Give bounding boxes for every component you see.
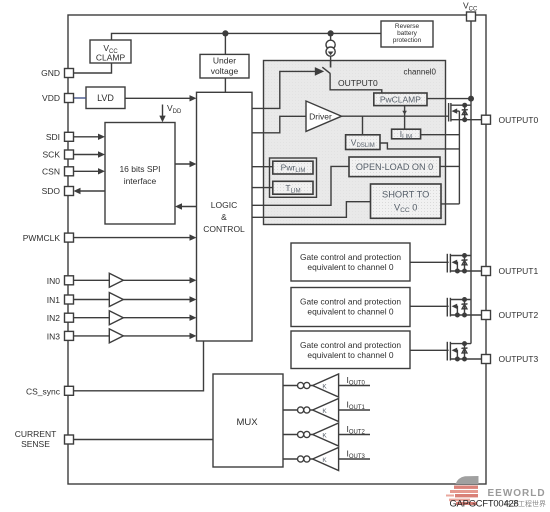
PwrLIM box (273, 161, 313, 174)
VDSLIM box (346, 135, 380, 150)
pin pad SCK (65, 150, 74, 159)
wire under voltage to logic (224, 78, 226, 92)
pin pad OUTPUT3 (482, 355, 491, 364)
driver amplifier triangle (306, 101, 342, 131)
wire SPI to LOGIC (175, 163, 193, 165)
current sense amp K1 (283, 399, 370, 422)
svg-text:Reverse: Reverse (395, 23, 420, 30)
wire OPEN-LOAD to sense bus (440, 165, 459, 167)
16 bits SPI interface box (105, 123, 175, 225)
svg-text:CLAMP: CLAMP (96, 53, 126, 63)
svg-text:battery: battery (397, 30, 418, 37)
TLIM box (273, 181, 313, 194)
svg-text:IN3: IN3 (47, 331, 61, 341)
wire logic to OPEN-LOAD (252, 166, 349, 205)
svg-text:Gate control and protection: Gate control and protection (300, 296, 401, 306)
reverse battery protection box (381, 21, 433, 47)
wire VDSLIM to sense bus (380, 143, 459, 149)
wire VDD to LVD (74, 97, 87, 99)
pin pad OUTPUT0 (482, 115, 491, 124)
current sense amp K3 (283, 448, 370, 471)
wire logic to SHORT TO (252, 202, 371, 218)
svg-text:PwCLAMP: PwCLAMP (380, 94, 421, 104)
pin pad OUTPUT2 (482, 311, 491, 320)
svg-text:K: K (322, 408, 327, 415)
Under voltage box (200, 54, 249, 78)
switch blade (322, 67, 330, 73)
svg-text:equivalent to channel 0: equivalent to channel 0 (307, 262, 393, 272)
wire LOGIC to SPI (179, 206, 197, 208)
pin pad SDO (65, 187, 74, 196)
node: junction at charge pump tap (328, 30, 334, 36)
OPEN-LOAD ON 0 box (349, 157, 440, 177)
svg-text:CURRENT: CURRENT (15, 429, 57, 439)
pin pad OUTPUT1 (482, 267, 491, 276)
gate control channel 1 box (291, 243, 410, 281)
pin pad IN1 (65, 295, 74, 304)
svg-text:CONTROL: CONTROL (203, 224, 245, 234)
input buffer IN1 (74, 293, 197, 307)
node: junction at under voltage tap (222, 30, 228, 36)
transistor Q0 power MOSFET (449, 103, 482, 123)
gate control channel 2 box (291, 288, 410, 327)
svg-text:channel0: channel0 (404, 68, 437, 77)
wire SCK (74, 154, 102, 156)
PwCLAMP box (374, 93, 427, 106)
wire SHORT TO to sense bus (441, 203, 459, 205)
svg-text:Gate control and protection: Gate control and protection (300, 252, 401, 262)
input buffer IN2 (74, 311, 197, 325)
wire ILIM to sense bus (421, 134, 460, 136)
charge pump symbol (two circles with arrow) (326, 40, 335, 56)
svg-text:IN0: IN0 (47, 276, 61, 286)
pin pad IN3 (65, 331, 74, 340)
gate control channel 3 box (291, 331, 410, 369)
input buffer IN0 (74, 273, 197, 287)
svg-text:16 bits SPI: 16 bits SPI (119, 164, 160, 174)
pin pad VDD (65, 94, 74, 103)
pin pad GND (65, 69, 74, 78)
svg-text:equivalent to channel 0: equivalent to channel 0 (307, 306, 393, 316)
svg-text:interface: interface (124, 176, 157, 186)
svg-text:OUTPUT1: OUTPUT1 (499, 266, 539, 276)
pin pad IN0 (65, 276, 74, 285)
wire PwCLAMP to VCC rail (427, 98, 471, 100)
node: junction PwCLAMP on VCC rail (468, 96, 474, 102)
wire logic to channel0 switch (252, 71, 316, 108)
current sense amp K0 (283, 374, 370, 397)
svg-text:VDD: VDD (42, 93, 60, 103)
pin pad PWMCLK (65, 233, 74, 242)
transistor Q2 power MOSFET channel2 (410, 297, 482, 318)
wire SDO (output) (77, 190, 105, 192)
svg-text:CS_sync: CS_sync (26, 386, 61, 396)
svg-text:&: & (221, 212, 227, 222)
wire logic to driver (252, 116, 306, 133)
pin pad VCC (467, 12, 476, 21)
input buffer IN3 (74, 329, 197, 343)
LVD box (86, 87, 125, 109)
LOGIC & CONTROL box (197, 92, 253, 341)
SHORT TO VCC 0 box (371, 184, 442, 218)
svg-text:K: K (322, 457, 327, 464)
svg-text:K: K (322, 383, 327, 390)
zener diode Q0 gate-source (462, 105, 468, 120)
sense bus vertical (458, 111, 460, 204)
svg-text:IN1: IN1 (47, 295, 61, 305)
svg-text:PWMCLK: PWMCLK (23, 233, 61, 243)
svg-text:LVD: LVD (97, 93, 114, 103)
svg-text:IN2: IN2 (47, 313, 61, 323)
current sense amp K2 (283, 423, 370, 446)
pin pad CS_sync (65, 386, 74, 395)
outer IC boundary box (68, 15, 486, 484)
svg-text:Driver: Driver (309, 112, 332, 122)
pin pad CURRENT SENSE (65, 435, 74, 444)
wire VCC clamp riser to reverse battery (112, 33, 382, 40)
wire CURRENT SENSE to MUX (74, 439, 214, 441)
svg-text:equivalent to channel 0: equivalent to channel 0 (307, 350, 393, 360)
svg-text:MUX: MUX (236, 417, 258, 428)
driver output wire to gate (342, 115, 449, 117)
transistor Q1 power MOSFET channel1 (410, 253, 482, 274)
wire PWMCLK to logic (74, 237, 193, 239)
pin pad IN2 (65, 313, 74, 322)
svg-text:CSN: CSN (42, 166, 60, 176)
wire driver branch to VDSLIM (362, 116, 364, 135)
svg-text:SDI: SDI (46, 132, 60, 142)
wire logic to PwrLIM (252, 166, 273, 168)
svg-text:OUTPUT0: OUTPUT0 (338, 78, 378, 88)
svg-text:OUTPUT3: OUTPUT3 (499, 354, 539, 364)
svg-text:SHORT TO: SHORT TO (382, 190, 429, 200)
pin pad CSN (65, 167, 74, 176)
PwrLIM TLIM group box (270, 158, 317, 197)
wire logic to TLIM (252, 187, 273, 189)
wire CSN (74, 170, 102, 172)
switch riser from charge pump (330, 61, 332, 68)
svg-text:LOGIC: LOGIC (211, 200, 237, 210)
wire under voltage riser (224, 33, 226, 54)
svg-text:GAPGCFT00428: GAPGCFT00428 (450, 498, 519, 509)
svg-text:Gate control and protection: Gate control and protection (300, 340, 401, 350)
wire GND to VCC clamp (74, 63, 112, 73)
wire SDI (74, 136, 102, 138)
svg-text:SCK: SCK (43, 150, 61, 160)
VCC CLAMP box (90, 40, 131, 63)
wire LVD to logic (125, 97, 193, 99)
wire PwCLAMP down to ILIM with arrow (404, 106, 406, 130)
svg-text:OPEN-LOAD ON 0: OPEN-LOAD ON 0 (356, 162, 433, 172)
svg-text:Under: Under (213, 56, 236, 66)
transistor Q3 power MOSFET channel3 (410, 341, 482, 361)
svg-text:K: K (322, 432, 327, 439)
EEWORLD watermark (446, 476, 546, 509)
channel0 shaded block (264, 61, 446, 225)
MUX box (213, 374, 283, 467)
VDD supply arrow into SPI (162, 105, 164, 119)
svg-text:SENSE: SENSE (21, 439, 50, 449)
svg-text:voltage: voltage (211, 66, 239, 76)
VCC rail (470, 21, 472, 344)
wire switch output to PwCLAMP (330, 73, 382, 93)
svg-text:GND: GND (41, 68, 60, 78)
ILIM box (392, 129, 421, 139)
svg-text:OUTPUT2: OUTPUT2 (499, 310, 539, 320)
svg-text:protection: protection (393, 37, 422, 44)
wire CS_sync to logic (74, 341, 204, 391)
svg-text:OUTPUT0: OUTPUT0 (499, 115, 539, 125)
svg-text:SDO: SDO (42, 186, 61, 196)
wire charge pump drop (330, 33, 332, 67)
pin pad SDI (65, 132, 74, 141)
